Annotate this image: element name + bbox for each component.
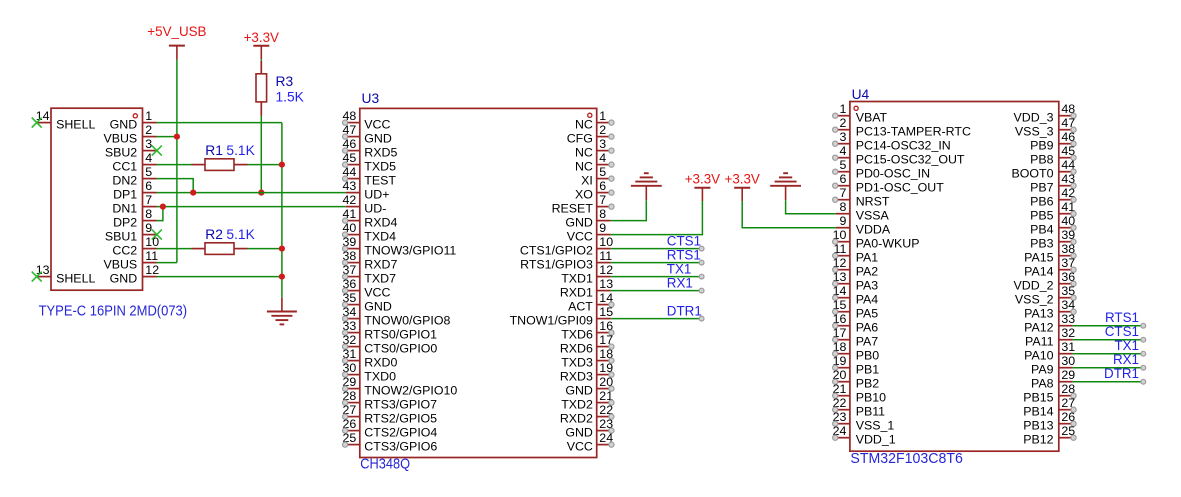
junction R2 / ground rail bbox=[279, 246, 285, 252]
svg-text:PC15-OSC32_OUT: PC15-OSC32_OUT bbox=[856, 153, 965, 167]
U3 pin 8 GND bbox=[597, 207, 611, 221]
svg-text:6: 6 bbox=[599, 179, 606, 193]
svg-text:NC: NC bbox=[575, 146, 593, 160]
junction at VBUS pin2 / +5V rail bbox=[174, 134, 180, 140]
svg-text:8: 8 bbox=[145, 207, 152, 221]
U4 pin 11 PA1 bbox=[833, 242, 850, 258]
wire +5V_USB vertical to VBUS pins bbox=[176, 60, 178, 263]
wire DN1 to U3 UD- bbox=[157, 206, 346, 208]
label R2 5.1K bbox=[205, 227, 255, 242]
svg-text:5.1K: 5.1K bbox=[226, 227, 255, 242]
U4 pin 31 PA10 bbox=[1059, 340, 1075, 354]
svg-text:PB0: PB0 bbox=[856, 349, 880, 363]
svg-text:TXD0: TXD0 bbox=[364, 370, 396, 384]
svg-text:CTS1/GPIO2: CTS1/GPIO2 bbox=[520, 244, 593, 258]
svg-text:VSS_2: VSS_2 bbox=[1015, 293, 1054, 307]
U3 pin 14 ACT bbox=[597, 291, 614, 307]
net port dot RTS1 (U4 side) bbox=[1141, 323, 1146, 328]
svg-text:VCC: VCC bbox=[364, 118, 390, 132]
wire connector pin 2 VBUS stub to +5V rail bbox=[157, 136, 177, 138]
svg-text:PB6: PB6 bbox=[1030, 195, 1054, 209]
svg-text:13: 13 bbox=[599, 277, 613, 291]
svg-text:TXD4: TXD4 bbox=[364, 230, 396, 244]
U3 pin 27 RTS2/GPIO5 bbox=[343, 403, 360, 419]
svg-text:VSSA: VSSA bbox=[856, 209, 890, 223]
U4 pin 41 PB5 bbox=[1059, 200, 1076, 216]
U4 pin 3 PC14-OSC32_IN bbox=[833, 130, 850, 146]
U4 pin 36 VDD_2 bbox=[1059, 270, 1076, 286]
connector P1 pin 14 SHELL bbox=[36, 109, 51, 123]
U4 pin 43 PB7 bbox=[1059, 172, 1076, 188]
svg-text:PB9: PB9 bbox=[1030, 139, 1054, 153]
svg-text:8: 8 bbox=[599, 207, 606, 221]
U3 pin 29 TNOW2/GPIO10 bbox=[343, 375, 360, 391]
wire +5V_USB to connector pin 11 VBUS bbox=[157, 262, 177, 264]
U3 pin 13 RXD1 bbox=[597, 277, 613, 291]
U4 pin 22 PB11 bbox=[833, 396, 850, 412]
net port dot DTR1 (U4 side) bbox=[1141, 379, 1146, 384]
svg-text:CTS2/GPIO4: CTS2/GPIO4 bbox=[364, 426, 437, 440]
no-connect flag on connector pin 3 bbox=[152, 146, 162, 156]
svg-text:VDD_2: VDD_2 bbox=[1014, 279, 1054, 293]
U3 pin 42 UD- bbox=[343, 193, 360, 207]
U4 pin 27 PB14 bbox=[1059, 396, 1076, 412]
svg-text:NC: NC bbox=[575, 118, 593, 132]
svg-text:RTS0/GPIO1: RTS0/GPIO1 bbox=[364, 328, 437, 342]
svg-text:CTS0/GPIO0: CTS0/GPIO0 bbox=[364, 342, 437, 356]
U3 pin 47 GND bbox=[343, 123, 360, 139]
svg-text:RESET: RESET bbox=[552, 202, 594, 216]
label R3 1.5K bbox=[276, 74, 305, 105]
svg-text:1: 1 bbox=[145, 109, 152, 123]
wire R1 to ground rail bbox=[248, 164, 282, 166]
svg-text:R2: R2 bbox=[205, 227, 223, 242]
svg-text:12: 12 bbox=[145, 263, 159, 277]
no-connect flag on connector pin 14 bbox=[32, 118, 42, 128]
connector P1 pin 7 DN1 bbox=[143, 193, 157, 207]
svg-text:10: 10 bbox=[599, 235, 613, 249]
svg-text:TNOW1/GPI09: TNOW1/GPI09 bbox=[510, 314, 593, 328]
svg-text:VBUS: VBUS bbox=[103, 132, 137, 146]
junction R1 / ground rail bbox=[279, 162, 285, 168]
svg-text:8: 8 bbox=[839, 200, 846, 214]
svg-text:TXD5: TXD5 bbox=[364, 160, 396, 174]
svg-text:TX1: TX1 bbox=[667, 261, 692, 276]
svg-text:VBUS: VBUS bbox=[103, 258, 137, 272]
U3 pin 25 CTS3/GPIO6 bbox=[343, 431, 360, 447]
svg-text:PA10: PA10 bbox=[1024, 349, 1053, 363]
U3 pin 18 TXD3 bbox=[597, 347, 614, 363]
U4 pin 46 PB9 bbox=[1059, 130, 1076, 146]
svg-text:VDD_3: VDD_3 bbox=[1014, 111, 1054, 125]
svg-text:4: 4 bbox=[145, 151, 152, 165]
svg-text:1: 1 bbox=[839, 102, 846, 116]
svg-text:PD0-OSC_IN: PD0-OSC_IN bbox=[856, 167, 930, 181]
svg-text:PB12: PB12 bbox=[1023, 433, 1053, 447]
svg-text:RXD6: RXD6 bbox=[560, 342, 593, 356]
svg-text:5: 5 bbox=[839, 158, 846, 172]
wire +3.3V to R3 bbox=[260, 59, 262, 61]
junction DP2 / UD- net bbox=[160, 204, 166, 210]
svg-text:PA11: PA11 bbox=[1025, 335, 1054, 349]
U4 pin 18 PB0 bbox=[833, 340, 850, 356]
U3 pin 38 RXD7 bbox=[343, 249, 360, 265]
svg-text:30: 30 bbox=[1061, 354, 1075, 368]
power symbol +3.3V (R3) bbox=[244, 30, 279, 59]
svg-text:11: 11 bbox=[145, 249, 158, 263]
svg-text:UD+: UD+ bbox=[364, 188, 389, 202]
U3 pin 23 GND bbox=[597, 417, 614, 433]
connector P1 pin names bbox=[56, 118, 137, 286]
U4 pin 7 NRST bbox=[833, 186, 850, 202]
U3 left pin names bbox=[364, 118, 457, 454]
U4 pin 21 PB10 bbox=[833, 382, 850, 398]
svg-text:GND: GND bbox=[565, 426, 593, 440]
svg-text:PA8: PA8 bbox=[1031, 377, 1054, 391]
wire ground rail vertical bbox=[281, 123, 283, 298]
svg-text:PB7: PB7 bbox=[1030, 181, 1054, 195]
svg-text:RTS1: RTS1 bbox=[667, 247, 701, 262]
wire U4 to net TX1 bbox=[1073, 353, 1144, 355]
svg-text:PB8: PB8 bbox=[1030, 153, 1054, 167]
svg-text:PD1-OSC_OUT: PD1-OSC_OUT bbox=[856, 181, 945, 195]
svg-text:CTS3/GPIO6: CTS3/GPIO6 bbox=[364, 440, 437, 454]
connector P1 pin 2 VBUS bbox=[143, 123, 157, 137]
U3 pin 6 XO bbox=[597, 179, 614, 195]
U4 pin 19 PB1 bbox=[833, 354, 850, 370]
U4 pin 42 PB6 bbox=[1059, 186, 1076, 202]
svg-text:RTS3/GPIO7: RTS3/GPIO7 bbox=[364, 398, 437, 412]
svg-text:DP2: DP2 bbox=[113, 216, 137, 230]
svg-text:TXD7: TXD7 bbox=[364, 272, 396, 286]
svg-text:3: 3 bbox=[599, 137, 606, 151]
U4 pin 16 PA6 bbox=[833, 312, 850, 328]
svg-text:2: 2 bbox=[839, 116, 846, 130]
wire DP2 jog up to UD- net bbox=[157, 207, 163, 221]
svg-text:4: 4 bbox=[599, 151, 606, 165]
svg-text:GND: GND bbox=[364, 132, 392, 146]
svg-text:SBU1: SBU1 bbox=[105, 230, 137, 244]
svg-text:VCC: VCC bbox=[567, 440, 593, 454]
svg-text:PB11: PB11 bbox=[856, 405, 885, 419]
U3 pin 5 XI bbox=[597, 165, 614, 181]
svg-text:CFG: CFG bbox=[567, 132, 593, 146]
U4 pin 28 PB15 bbox=[1059, 382, 1076, 398]
junction DN2 / UD+ net bbox=[190, 190, 196, 196]
svg-text:CH348Q: CH348Q bbox=[360, 455, 410, 472]
connector P1 pin 1 GND bbox=[143, 109, 157, 123]
svg-text:7: 7 bbox=[599, 193, 606, 207]
svg-text:DP1: DP1 bbox=[113, 188, 137, 202]
U3 pin 32 CTS0/GPIO0 bbox=[343, 333, 360, 349]
svg-text:RX1: RX1 bbox=[667, 275, 693, 290]
wire U4 to net RX1 bbox=[1073, 367, 1144, 369]
connector P1 pin 10 CC2 bbox=[143, 235, 160, 249]
U4 pin 20 PB2 bbox=[833, 368, 850, 384]
svg-text:+3.3V: +3.3V bbox=[244, 30, 279, 45]
svg-text:9: 9 bbox=[839, 214, 846, 228]
svg-text:VDDA: VDDA bbox=[856, 223, 891, 237]
label R1 5.1K bbox=[205, 143, 255, 158]
U3 pin 16 TXD6 bbox=[597, 319, 614, 335]
svg-text:5: 5 bbox=[145, 165, 152, 179]
wire U3 to net TX1 bbox=[611, 276, 702, 278]
svg-text:RTS1: RTS1 bbox=[1105, 310, 1139, 325]
U3 pin 30 TXD0 bbox=[343, 361, 360, 377]
connector P1 pin 12 GND bbox=[143, 263, 160, 277]
svg-text:3: 3 bbox=[145, 137, 152, 151]
U3 pin 17 RXD6 bbox=[597, 333, 614, 349]
U3 pin 34 TNOW0/GPIO8 bbox=[343, 305, 360, 321]
connector P1 pin 8 DP2 bbox=[143, 207, 157, 221]
wire connector GND pin1 to ground rail bbox=[157, 122, 282, 124]
svg-text:CC2: CC2 bbox=[112, 244, 137, 258]
svg-text:SHELL: SHELL bbox=[56, 118, 95, 132]
U4 pin 32 PA11 bbox=[1059, 326, 1075, 340]
ground symbol GND2 (U3) bbox=[631, 173, 662, 200]
U3 pin-1 marker circle bbox=[588, 113, 592, 117]
svg-text:XI: XI bbox=[581, 174, 593, 188]
connector P1 pin 9 SBU1 bbox=[143, 221, 157, 235]
IC U4 body bbox=[850, 102, 1059, 452]
svg-text:XO: XO bbox=[575, 188, 593, 202]
U4 pin 24 VDD_1 bbox=[833, 424, 850, 440]
power symbol +3.3V (U4) bbox=[725, 172, 760, 201]
svg-text:10: 10 bbox=[145, 235, 159, 249]
U3 pin 24 VCC bbox=[597, 431, 614, 447]
U4 pin 1 VBAT bbox=[833, 102, 850, 118]
svg-text:GND: GND bbox=[565, 384, 593, 398]
svg-text:TXD3: TXD3 bbox=[561, 356, 593, 370]
svg-text:12: 12 bbox=[599, 263, 613, 277]
svg-text:TXD1: TXD1 bbox=[561, 272, 593, 286]
svg-text:VBAT: VBAT bbox=[856, 111, 888, 125]
U4 pin 33 PA12 bbox=[1059, 312, 1075, 326]
wire connector CC1 to R1 bbox=[157, 164, 192, 166]
svg-text:PB4: PB4 bbox=[1030, 223, 1054, 237]
U3 pin 39 TNOW3/GPIO11 bbox=[343, 235, 360, 251]
U4 pin 10 PA0-WKUP bbox=[833, 228, 850, 244]
svg-text:CTS1: CTS1 bbox=[1105, 324, 1139, 339]
U4 pin 14 PA4 bbox=[833, 284, 850, 300]
wire U3 VCC pin9 to +3.3V bbox=[611, 201, 703, 235]
U3 pin 46 RXD5 bbox=[343, 137, 360, 153]
svg-text:6: 6 bbox=[839, 172, 846, 186]
svg-text:CC1: CC1 bbox=[112, 160, 137, 174]
U4 pin 5 PD0-OSC_IN bbox=[833, 158, 850, 174]
svg-text:11: 11 bbox=[599, 249, 612, 263]
U4 pin 39 PB3 bbox=[1059, 228, 1076, 244]
svg-text:R1: R1 bbox=[205, 143, 223, 158]
svg-text:GND: GND bbox=[565, 216, 593, 230]
svg-text:32: 32 bbox=[1061, 326, 1075, 340]
U3 pin 35 GND bbox=[343, 291, 360, 307]
svg-text:TXD2: TXD2 bbox=[561, 398, 593, 412]
svg-text:PA3: PA3 bbox=[856, 279, 879, 293]
wire U4 to net DTR1 bbox=[1073, 381, 1144, 383]
U4 pin 8 VSSA bbox=[836, 200, 850, 214]
svg-text:PA13: PA13 bbox=[1024, 307, 1053, 321]
wire U4 VDDA pin9 to +3.3V bbox=[742, 201, 836, 228]
U3 pin 15 TNOW1/GPI09 bbox=[597, 305, 613, 319]
connector P1 pin 4 CC1 bbox=[143, 151, 157, 165]
svg-text:GND: GND bbox=[110, 118, 138, 132]
U4 pin 30 PA9 bbox=[1059, 354, 1075, 368]
svg-text:RXD0: RXD0 bbox=[364, 356, 397, 370]
svg-text:RTS1/GPIO3: RTS1/GPIO3 bbox=[520, 258, 593, 272]
U4 pin 26 PB13 bbox=[1059, 410, 1076, 426]
junction GND pin12 / ground rail bbox=[279, 274, 285, 280]
svg-text:1: 1 bbox=[599, 109, 606, 123]
U4 pin 47 VSS_3 bbox=[1059, 116, 1076, 132]
svg-text:3: 3 bbox=[839, 130, 846, 144]
svg-text:VCC: VCC bbox=[364, 286, 390, 300]
svg-text:DTR1: DTR1 bbox=[1104, 366, 1139, 381]
wire U3 GND pin8 to ground bbox=[611, 200, 647, 220]
svg-text:7: 7 bbox=[839, 186, 846, 200]
no-connect flag on connector pin 9 bbox=[152, 230, 162, 240]
svg-text:PA9: PA9 bbox=[1031, 363, 1054, 377]
svg-text:TNOW3/GPIO11: TNOW3/GPIO11 bbox=[364, 244, 456, 258]
svg-text:PB3: PB3 bbox=[1030, 237, 1054, 251]
net port dot TX1 (U4 side) bbox=[1141, 351, 1146, 356]
wire R3 to UD+ net bbox=[260, 116, 262, 193]
svg-text:TX1: TX1 bbox=[1114, 338, 1139, 353]
U4 pin 34 PA13 bbox=[1059, 298, 1076, 314]
junction R3 / UD+ wire bbox=[258, 190, 264, 196]
U4 pin 13 PA3 bbox=[833, 270, 850, 286]
U3 pin 37 TXD7 bbox=[343, 263, 360, 279]
svg-text:SBU2: SBU2 bbox=[105, 146, 137, 160]
connector P1 pin-1 marker circle bbox=[133, 114, 137, 118]
svg-text:PA1: PA1 bbox=[856, 251, 879, 265]
svg-text:5.1K: 5.1K bbox=[226, 143, 255, 158]
U4 pin 35 VSS_2 bbox=[1059, 284, 1076, 300]
svg-text:5: 5 bbox=[599, 165, 606, 179]
svg-text:PB15: PB15 bbox=[1023, 391, 1053, 405]
U4 pin 40 PB4 bbox=[1059, 214, 1076, 230]
U4 pin 45 PB8 bbox=[1059, 144, 1076, 160]
svg-text:RXD7: RXD7 bbox=[364, 258, 397, 272]
svg-text:UD-: UD- bbox=[364, 202, 386, 216]
U3 pin 4 NC bbox=[597, 151, 614, 167]
svg-text:9: 9 bbox=[599, 221, 606, 235]
svg-text:TNOW0/GPIO8: TNOW0/GPIO8 bbox=[364, 314, 450, 328]
net port dot RX1 (U4 side) bbox=[1141, 365, 1146, 370]
svg-text:SHELL: SHELL bbox=[56, 272, 95, 286]
svg-text:1.5K: 1.5K bbox=[276, 89, 305, 104]
wire connector CC2 to R2 bbox=[157, 248, 192, 250]
connector P1 pin 6 DP1 bbox=[143, 179, 157, 193]
svg-text:RXD5: RXD5 bbox=[364, 146, 397, 160]
power symbol +5V_USB bbox=[147, 24, 206, 59]
svg-text:9: 9 bbox=[145, 221, 152, 235]
net port dot TX1 bbox=[699, 274, 704, 279]
U4 pin 44 BOOT0 bbox=[1059, 158, 1076, 174]
svg-text:PB1: PB1 bbox=[856, 363, 880, 377]
svg-text:PA14: PA14 bbox=[1024, 265, 1053, 279]
wire DP1 to U3 UD+ bbox=[157, 192, 346, 194]
svg-text:CTS1: CTS1 bbox=[667, 233, 701, 248]
U3 pin 33 RTS0/GPIO1 bbox=[343, 319, 360, 335]
svg-text:2: 2 bbox=[599, 123, 606, 137]
svg-text:+3.3V: +3.3V bbox=[685, 172, 720, 187]
svg-text:6: 6 bbox=[145, 179, 152, 193]
svg-text:PA15: PA15 bbox=[1024, 251, 1053, 265]
connector P1 pin 5 DN2 bbox=[143, 165, 157, 179]
wire U3 to net CTS1 bbox=[611, 248, 702, 250]
svg-text:4: 4 bbox=[839, 144, 846, 158]
U3 pin 28 RTS3/GPIO7 bbox=[343, 389, 360, 405]
svg-text:PA4: PA4 bbox=[856, 293, 879, 307]
net port dot CTS1 (U4 side) bbox=[1141, 337, 1146, 342]
svg-text:PA6: PA6 bbox=[856, 321, 879, 335]
U4 pin 37 PA14 bbox=[1059, 256, 1076, 272]
svg-text:RX1: RX1 bbox=[1113, 352, 1139, 367]
U3 pin 12 TXD1 bbox=[597, 263, 613, 277]
svg-text:43: 43 bbox=[343, 179, 357, 193]
svg-text:15: 15 bbox=[599, 305, 613, 319]
svg-text:ACT: ACT bbox=[568, 300, 593, 314]
svg-text:PB13: PB13 bbox=[1023, 419, 1053, 433]
U3 pin 48 VCC bbox=[343, 109, 360, 125]
connector P1 pin 13 SHELL bbox=[36, 263, 51, 277]
svg-text:PB14: PB14 bbox=[1023, 405, 1053, 419]
svg-text:TXD6: TXD6 bbox=[561, 328, 593, 342]
svg-text:PB5: PB5 bbox=[1030, 209, 1054, 223]
U4 left pin names bbox=[856, 111, 971, 447]
U3 pin 36 VCC bbox=[343, 277, 360, 293]
U4 pin 29 PA8 bbox=[1059, 368, 1075, 382]
U4 pin 9 VDDA bbox=[836, 214, 850, 228]
svg-text:TEST: TEST bbox=[364, 174, 396, 188]
U4 pin 48 VDD_3 bbox=[1059, 102, 1076, 118]
net port dot DTR1 bbox=[699, 316, 704, 321]
U3 pin 10 CTS1/GPIO2 bbox=[597, 235, 613, 249]
svg-text:STM32F103C8T6: STM32F103C8T6 bbox=[850, 450, 963, 467]
wire R2 to ground rail bbox=[248, 248, 282, 250]
U4 pin-1 marker circle bbox=[854, 106, 858, 110]
svg-text:33: 33 bbox=[1061, 312, 1075, 326]
connector P1 pin 11 VBUS bbox=[143, 249, 159, 263]
U4 right pin names bbox=[1012, 111, 1054, 447]
svg-text:PA0-WKUP: PA0-WKUP bbox=[856, 237, 920, 251]
svg-text:VSS_3: VSS_3 bbox=[1015, 125, 1054, 139]
wire U4 to net RTS1 bbox=[1073, 325, 1144, 327]
U4 pin 2 PC13-TAMPER-RTC bbox=[833, 116, 850, 132]
svg-text:RXD2: RXD2 bbox=[560, 412, 593, 426]
U4 pin 15 PA5 bbox=[833, 298, 850, 314]
U3 pin 40 TXD4 bbox=[343, 221, 360, 237]
U3 pin 26 CTS2/GPIO4 bbox=[343, 417, 360, 433]
svg-text:NC: NC bbox=[575, 160, 593, 174]
svg-text:TNOW2/GPIO10: TNOW2/GPIO10 bbox=[364, 384, 457, 398]
U4 pin 25 PB12 bbox=[1059, 424, 1076, 440]
svg-text:2: 2 bbox=[145, 123, 152, 137]
power symbol +3.3V (U3) bbox=[685, 172, 720, 201]
U4 pin 4 PC15-OSC32_OUT bbox=[833, 144, 850, 160]
net port dot CTS1 bbox=[699, 246, 704, 251]
U3 pin 2 CFG bbox=[597, 123, 614, 139]
wire connector GND pin12 to ground rail bbox=[157, 276, 282, 278]
svg-text:RXD1: RXD1 bbox=[560, 286, 593, 300]
U4 pin 6 PD1-OSC_OUT bbox=[833, 172, 850, 188]
U4 pin 23 VSS_1 bbox=[833, 410, 850, 426]
svg-text:7: 7 bbox=[145, 193, 152, 207]
svg-text:VSS_1: VSS_1 bbox=[856, 419, 895, 433]
svg-text:GND: GND bbox=[364, 300, 392, 314]
svg-text:BOOT0: BOOT0 bbox=[1012, 167, 1054, 181]
